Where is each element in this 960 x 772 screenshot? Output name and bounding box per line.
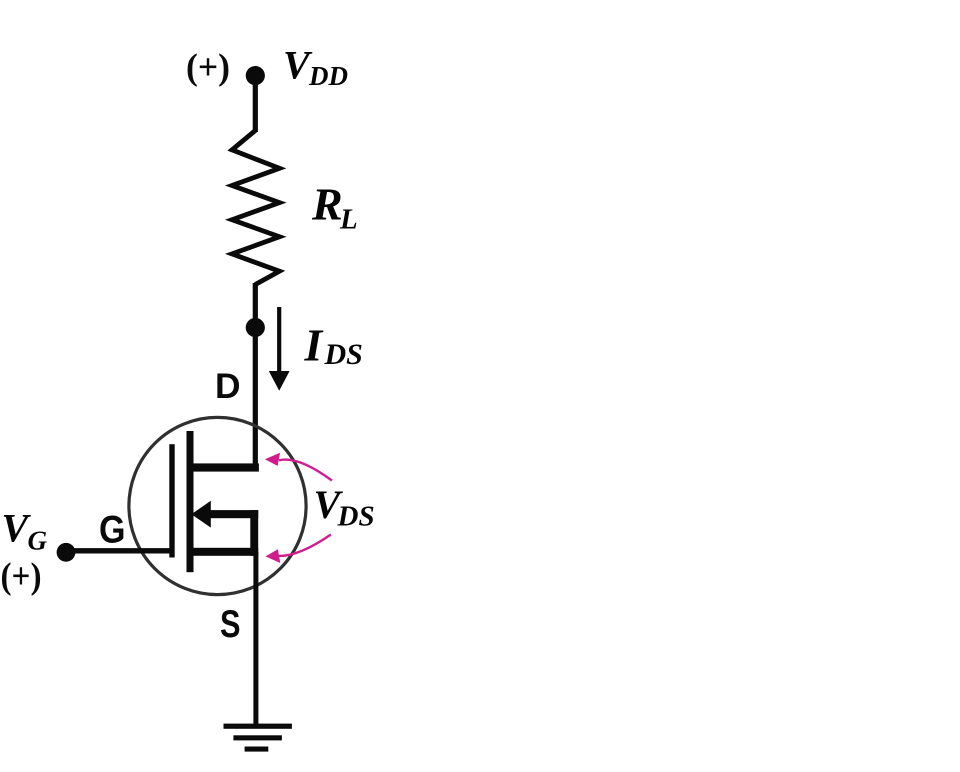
svg-text:S: S (220, 603, 241, 646)
svg-text:I: I (304, 320, 324, 371)
label VDS (314, 482, 375, 533)
label IDS (304, 320, 363, 372)
label VG (2, 506, 48, 556)
node VG terminal dot (57, 543, 76, 562)
transistor Q1 channel bar (187, 431, 194, 572)
transistor Q1 gate bar (169, 444, 174, 557)
wire resistor RL to drain node (253, 283, 258, 331)
transistor Q1 body arrowhead (191, 501, 210, 528)
label VDD (283, 42, 348, 91)
transistor Q1 body arrow stub (207, 510, 258, 518)
wire source to ground (253, 552, 258, 726)
resistor RL (232, 131, 280, 285)
wire VG to gate (66, 548, 172, 553)
node VDD terminal dot (246, 66, 265, 85)
svg-text:(+): (+) (1, 555, 42, 596)
svg-text:R: R (311, 179, 343, 230)
transistor Q1 source connector bar (250, 510, 258, 556)
wire drain node to transistor drain (253, 328, 258, 468)
label RL (311, 179, 358, 236)
svg-text:DS: DS (337, 501, 375, 533)
svg-text:D: D (215, 367, 241, 406)
svg-text:G: G (99, 509, 126, 552)
ground symbol (224, 724, 292, 752)
node drain junction dot (246, 318, 265, 337)
voltage arrow VDS upper (265, 453, 332, 481)
transistor Q1 drain stub (187, 463, 259, 471)
svg-text:DS: DS (324, 338, 363, 371)
svg-text:(+): (+) (186, 46, 230, 87)
wire VDD to resistor (253, 76, 258, 132)
current arrow IDS (269, 307, 290, 391)
transistor Q1 envelope circle (129, 417, 306, 594)
transistor Q1 source stub (187, 548, 259, 556)
svg-text:L: L (339, 204, 358, 236)
svg-text:G: G (28, 526, 48, 556)
voltage arrow VDS lower (266, 535, 331, 564)
svg-text:DD: DD (308, 61, 348, 91)
